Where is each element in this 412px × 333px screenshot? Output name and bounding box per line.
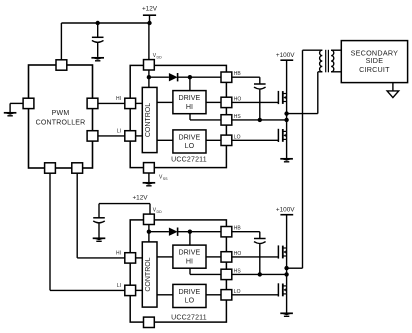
capacitor C2 (12V bypass bottom) [93,204,105,238]
svg-text:HB: HB [234,71,242,77]
wire +12V down to VDD pin U1 [148,23,150,60]
wire DRIVE HI to HS pin U1 [190,114,221,120]
pin HO U2 [221,252,232,262]
power rail +100V (bottom) [276,207,295,215]
pin HO U1 [221,97,232,107]
svg-text:UCC27211: UCC27211 [171,156,207,163]
wire +100V to Q-high drain bottom [286,215,288,248]
ground at Q-low source bottom [280,313,293,316]
block CONTROL U2 [142,242,157,307]
pin VDD U1 [144,60,155,70]
node switch-node dot upper bottom [284,266,288,270]
capacitor bootstrap top [254,84,266,120]
pin VDD U2 [144,214,155,224]
wire HS line top [232,119,287,121]
wire HB node down to DRIVE HI U2 [189,232,191,245]
wire return line to lower switch node [302,50,304,268]
svg-text:DRIVE: DRIVE [179,249,201,257]
label HI U1 [116,96,121,102]
ground at Q-low source top [280,159,293,162]
wire HI pin to CONTROL U2 [136,257,143,259]
label HB U2 [234,226,242,232]
wire VDD pin to internal node U1 [148,70,150,87]
wire DRIVE LO to LO pin U1 [206,139,221,141]
pin PWM top [56,60,67,70]
svg-text:+12V: +12V [132,195,148,202]
wire DRIVE HI to HO pin U2 [206,256,221,258]
svg-text:DRIVE: DRIVE [179,133,201,141]
svg-text:+12V: +12V [142,6,158,13]
label HB U1 [234,71,242,77]
node switch-node dot upper top [284,111,288,115]
diode bootstrap U2 [169,228,178,236]
wire +12V rail to PWM and VDD [61,22,149,24]
pin HB U2 [221,227,232,237]
pin HI U2 [125,253,136,263]
node bootstrap cap to HS dot bottom [258,272,262,276]
node junction dot HB U1 [188,75,192,79]
svg-text:CIRCUIT: CIRCUIT [359,65,390,74]
label VDD U1 [153,53,162,59]
label LI U1 [117,129,121,135]
node junction dot HB U2 [188,230,192,234]
label UCC27211 U1 [171,156,207,163]
PWM controller U3 box [29,65,93,168]
node junction dot at +12V/VDD [147,21,151,25]
label HO U1 [234,96,242,102]
label VDD U2 [153,208,162,214]
pin LO U2 [221,290,232,300]
block DRIVE HI U2 [173,245,206,268]
wire PWM LI out to U1 LI [98,135,125,137]
svg-text:HS: HS [234,114,242,120]
wire diode to HB node U1 [178,76,221,78]
wire PWM out1 to U2 LI [50,173,125,290]
diode bootstrap U1 [169,73,178,81]
svg-text:HI: HI [116,96,121,102]
label HS U2 [234,268,242,274]
wire diode to HB node U2 [178,231,221,233]
PWM controller label [36,110,86,126]
transformer T1 primary winding [320,50,323,72]
node switch-node dot HS bottom [284,272,288,276]
label LO U1 [234,134,241,140]
transformer T1 secondary winding [331,50,334,72]
ground at VSS U1 [143,183,156,186]
svg-text:HI: HI [186,103,193,111]
node junction dot VDD U1 [147,75,151,79]
pin VSS U2 [144,317,155,327]
wire transformer primary bottom stub [318,71,323,73]
wire DRIVE LO to LO pin U2 [206,294,221,296]
pin HI U1 [125,98,136,108]
ground below C2 [93,238,106,241]
wire transformer primary top to return line [303,49,323,51]
wire CONTROL to DRIVE HI U1 [157,101,173,103]
block DRIVE HI U1 [173,91,206,114]
block DRIVE LO U2 [173,284,206,307]
pin HS U1 [221,115,232,125]
driver U1 UCC27211 outer box [130,65,226,167]
wire CONTROL to DRIVE LO U1 [157,139,173,141]
svg-text:LO: LO [185,142,195,150]
wire PWM HI out to U1 HI [98,102,125,104]
wire HB to bootstrap cap bottom [232,232,260,239]
transistor Q-low top [278,129,286,142]
svg-text:LO: LO [234,134,241,140]
power rail +100V (top) [276,52,295,60]
svg-text:DRIVE: DRIVE [179,288,201,296]
wire Q-high source to Q-low drain top [286,102,288,132]
wire PWM left pin to ground [10,103,23,112]
transistor Q-high top [278,91,286,104]
wire LO to Q-low gate top [232,139,279,141]
label LI U2 [117,283,121,289]
wire node to bootstrap diode U1 [149,76,169,78]
ground below C1 [91,58,104,61]
ground at PWM left [4,113,17,116]
pin PWM right LI [87,131,98,141]
transformer T1 core [326,50,329,73]
svg-text:SS: SS [163,177,168,181]
block DRIVE LO U1 [173,130,206,153]
label HO U2 [234,251,242,257]
pin PWM bottom 1 [45,163,56,173]
svg-text:CONTROL: CONTROL [145,103,152,137]
wire DRIVE HI to HS pin U2 [190,268,221,274]
capacitor bootstrap bottom [254,239,266,275]
wire CONTROL to DRIVE LO U2 [157,294,173,296]
wire CONTROL to DRIVE HI U2 [157,256,173,258]
wire LI pin to CONTROL U1 [136,135,143,137]
node junction dot VDD U2 [147,230,151,234]
transistor Q-low bottom [278,283,286,296]
block CONTROL U1 [142,87,157,152]
wire HS line bottom [232,273,287,275]
wire Q-low source to ground bottom [286,294,288,313]
svg-text:LI: LI [117,129,121,135]
pin PWM right HI [87,98,98,108]
wire lower switch node to return line [287,267,303,269]
svg-text:SIDE: SIDE [366,56,384,65]
wire HO to Q-high gate top [232,101,279,103]
node bootstrap cap to HS dot top [258,118,262,122]
svg-text:DRIVE: DRIVE [179,94,201,102]
wire LO to Q-low gate bottom [232,294,279,296]
power rail +12V (bottom) [99,195,150,215]
pin HS U2 [221,269,232,279]
wire HB node down to DRIVE HI U1 [189,77,191,90]
svg-text:HS: HS [234,268,242,274]
capacitor C1 (12V bypass) [92,23,104,57]
pin HB U1 [221,72,232,82]
wire switch node to transformer primary bottom [287,72,318,114]
svg-text:CONTROLLER: CONTROLLER [36,119,86,126]
transistor Q-high bottom [278,245,286,258]
label HI U2 [116,251,121,257]
svg-text:+100V: +100V [276,52,295,59]
svg-text:HO: HO [234,96,242,102]
wire HB to bootstrap cap top [232,77,260,84]
wire secondary top to box [331,49,341,51]
svg-text:HB: HB [234,226,242,232]
wire node to bootstrap diode U2 [149,231,169,233]
label HS U1 [234,114,242,120]
label LO U2 [234,289,241,295]
wire PWM out2 to U2 HI [77,173,125,258]
pin VSS U1 [144,163,155,173]
wire VDD pin to internal node U2 [148,225,150,242]
wire DRIVE HI to HO pin U1 [206,101,221,103]
pin LI U1 [125,131,136,141]
wire HO to Q-high gate bottom [232,256,279,258]
svg-text:DD: DD [157,55,163,59]
wire VSS to ground U1 [148,173,150,182]
node junction dot at bypass cap C1 [96,21,100,25]
wire +100V to Q-high drain top [286,60,288,93]
secondary side circuit box [341,41,407,83]
wire PWM top pin to +12V rail [60,23,62,60]
node switch-node dot HS top [284,118,288,122]
label UCC27211 U2 [171,314,207,321]
wire Q-high source to Q-low drain bottom [286,256,288,286]
secondary side circuit label [351,48,399,74]
label VSS U1 [159,175,168,181]
wire LI pin to CONTROL U2 [136,289,143,291]
svg-text:+100V: +100V [276,207,295,214]
pin LI U2 [125,285,136,295]
svg-text:HI: HI [186,257,193,265]
svg-text:LI: LI [117,283,121,289]
svg-text:UCC27211: UCC27211 [171,314,207,321]
chassis ground arrow below secondary box [387,83,399,98]
wire HI pin to CONTROL U1 [136,102,143,104]
pin PWM left [23,98,34,108]
svg-text:HI: HI [116,251,121,257]
wire Q-low source to ground top [286,139,288,158]
svg-text:LO: LO [185,297,195,305]
pin PWM bottom 2 [72,163,83,173]
svg-text:PWM: PWM [52,110,70,117]
svg-text:CONTROL: CONTROL [145,257,152,291]
wire secondary bottom to box [331,71,341,73]
power rail +12V (top) [142,6,158,24]
svg-text:LO: LO [234,289,241,295]
svg-text:DD: DD [157,210,163,214]
svg-text:HO: HO [234,251,242,257]
pin LO U1 [221,135,232,145]
driver U2 UCC27211 outer box [130,220,226,322]
